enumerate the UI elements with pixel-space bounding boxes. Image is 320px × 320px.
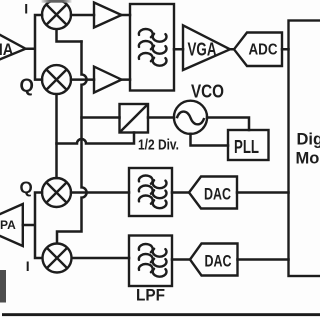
svg-text:LPF: LPF (136, 286, 165, 305)
svg-text:VGA: VGA (188, 40, 217, 60)
svg-text:Q: Q (20, 75, 34, 96)
svg-text:Q: Q (20, 178, 33, 197)
svg-text:VCO: VCO (191, 81, 224, 102)
svg-text:DAC: DAC (204, 186, 231, 204)
svg-text:I: I (24, 0, 28, 16)
svg-text:PLL: PLL (234, 137, 259, 157)
svg-text:LNA: LNA (0, 40, 13, 59)
svg-text:I: I (26, 258, 30, 274)
svg-text:1/2 Div.: 1/2 Div. (138, 137, 179, 154)
svg-text:Modem: Modem (296, 150, 320, 168)
svg-text:PA: PA (0, 218, 16, 232)
svg-text:DAC: DAC (205, 253, 232, 271)
svg-text:ADC: ADC (249, 42, 278, 59)
svg-text:Digital: Digital (297, 131, 320, 149)
